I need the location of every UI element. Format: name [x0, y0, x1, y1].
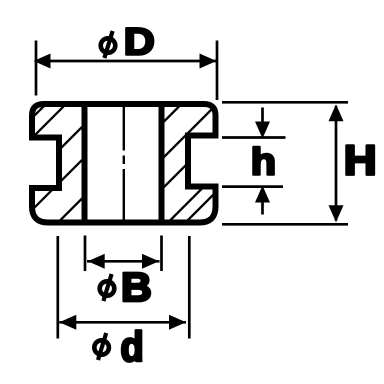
dimension H group: [222, 102, 348, 224]
svg-text:h: h: [251, 141, 276, 183]
phiB left extension line: [84, 236, 87, 272]
section hatching, right wall of grommet: [56, 96, 313, 230]
phiD right arrowhead: [200, 54, 217, 69]
phiD dimension line: [37, 60, 216, 63]
phiB right arrowhead: [142, 254, 159, 269]
svg-text:B: B: [121, 264, 152, 310]
h top arrowhead: [255, 122, 270, 139]
dimension phid group: [58, 236, 190, 339]
phiD left extension line: [35, 41, 38, 96]
H top arrowhead: [329, 104, 344, 121]
dimension phiD group: [36, 41, 217, 101]
h top extension line: [222, 136, 286, 139]
phiB diameter symbol: [100, 274, 115, 301]
grommet body outline with side grooves: [32, 104, 216, 223]
h bottom arrow tail: [261, 201, 264, 215]
section hatching, left wall of grommet: [0, 96, 312, 230]
bore wall left edge: [82, 104, 88, 223]
phid left extension line: [56, 236, 59, 339]
H top extension line: [222, 101, 348, 104]
svg-text:d: d: [121, 324, 144, 370]
dimension h group: [222, 108, 286, 215]
phiB right extension line: [160, 236, 163, 272]
phiB left arrowhead: [88, 254, 105, 269]
svg-text:D: D: [124, 20, 155, 63]
phid diameter symbol: [94, 333, 109, 360]
phiD diameter symbol: [101, 31, 116, 58]
phid right arrowhead: [169, 315, 186, 330]
h bottom arrowhead: [255, 186, 270, 203]
phiB dimension line: [87, 260, 160, 263]
h top arrow tail: [261, 108, 264, 125]
vertical centerline (dash-dot axis): [123, 107, 125, 221]
phid dimension line: [59, 321, 186, 324]
phiD left arrowhead: [34, 54, 51, 69]
phid left arrowhead: [59, 315, 76, 330]
dimension phiB group: [85, 236, 162, 272]
H bottom arrowhead: [329, 205, 344, 222]
h bottom extension line: [222, 185, 283, 188]
H dimension line: [335, 106, 338, 221]
svg-text:H: H: [344, 137, 377, 184]
phiD right extension line: [216, 41, 219, 101]
phid right extension line: [188, 236, 191, 339]
bore wall right edge: [159, 104, 165, 223]
H bottom extension line: [222, 223, 348, 226]
